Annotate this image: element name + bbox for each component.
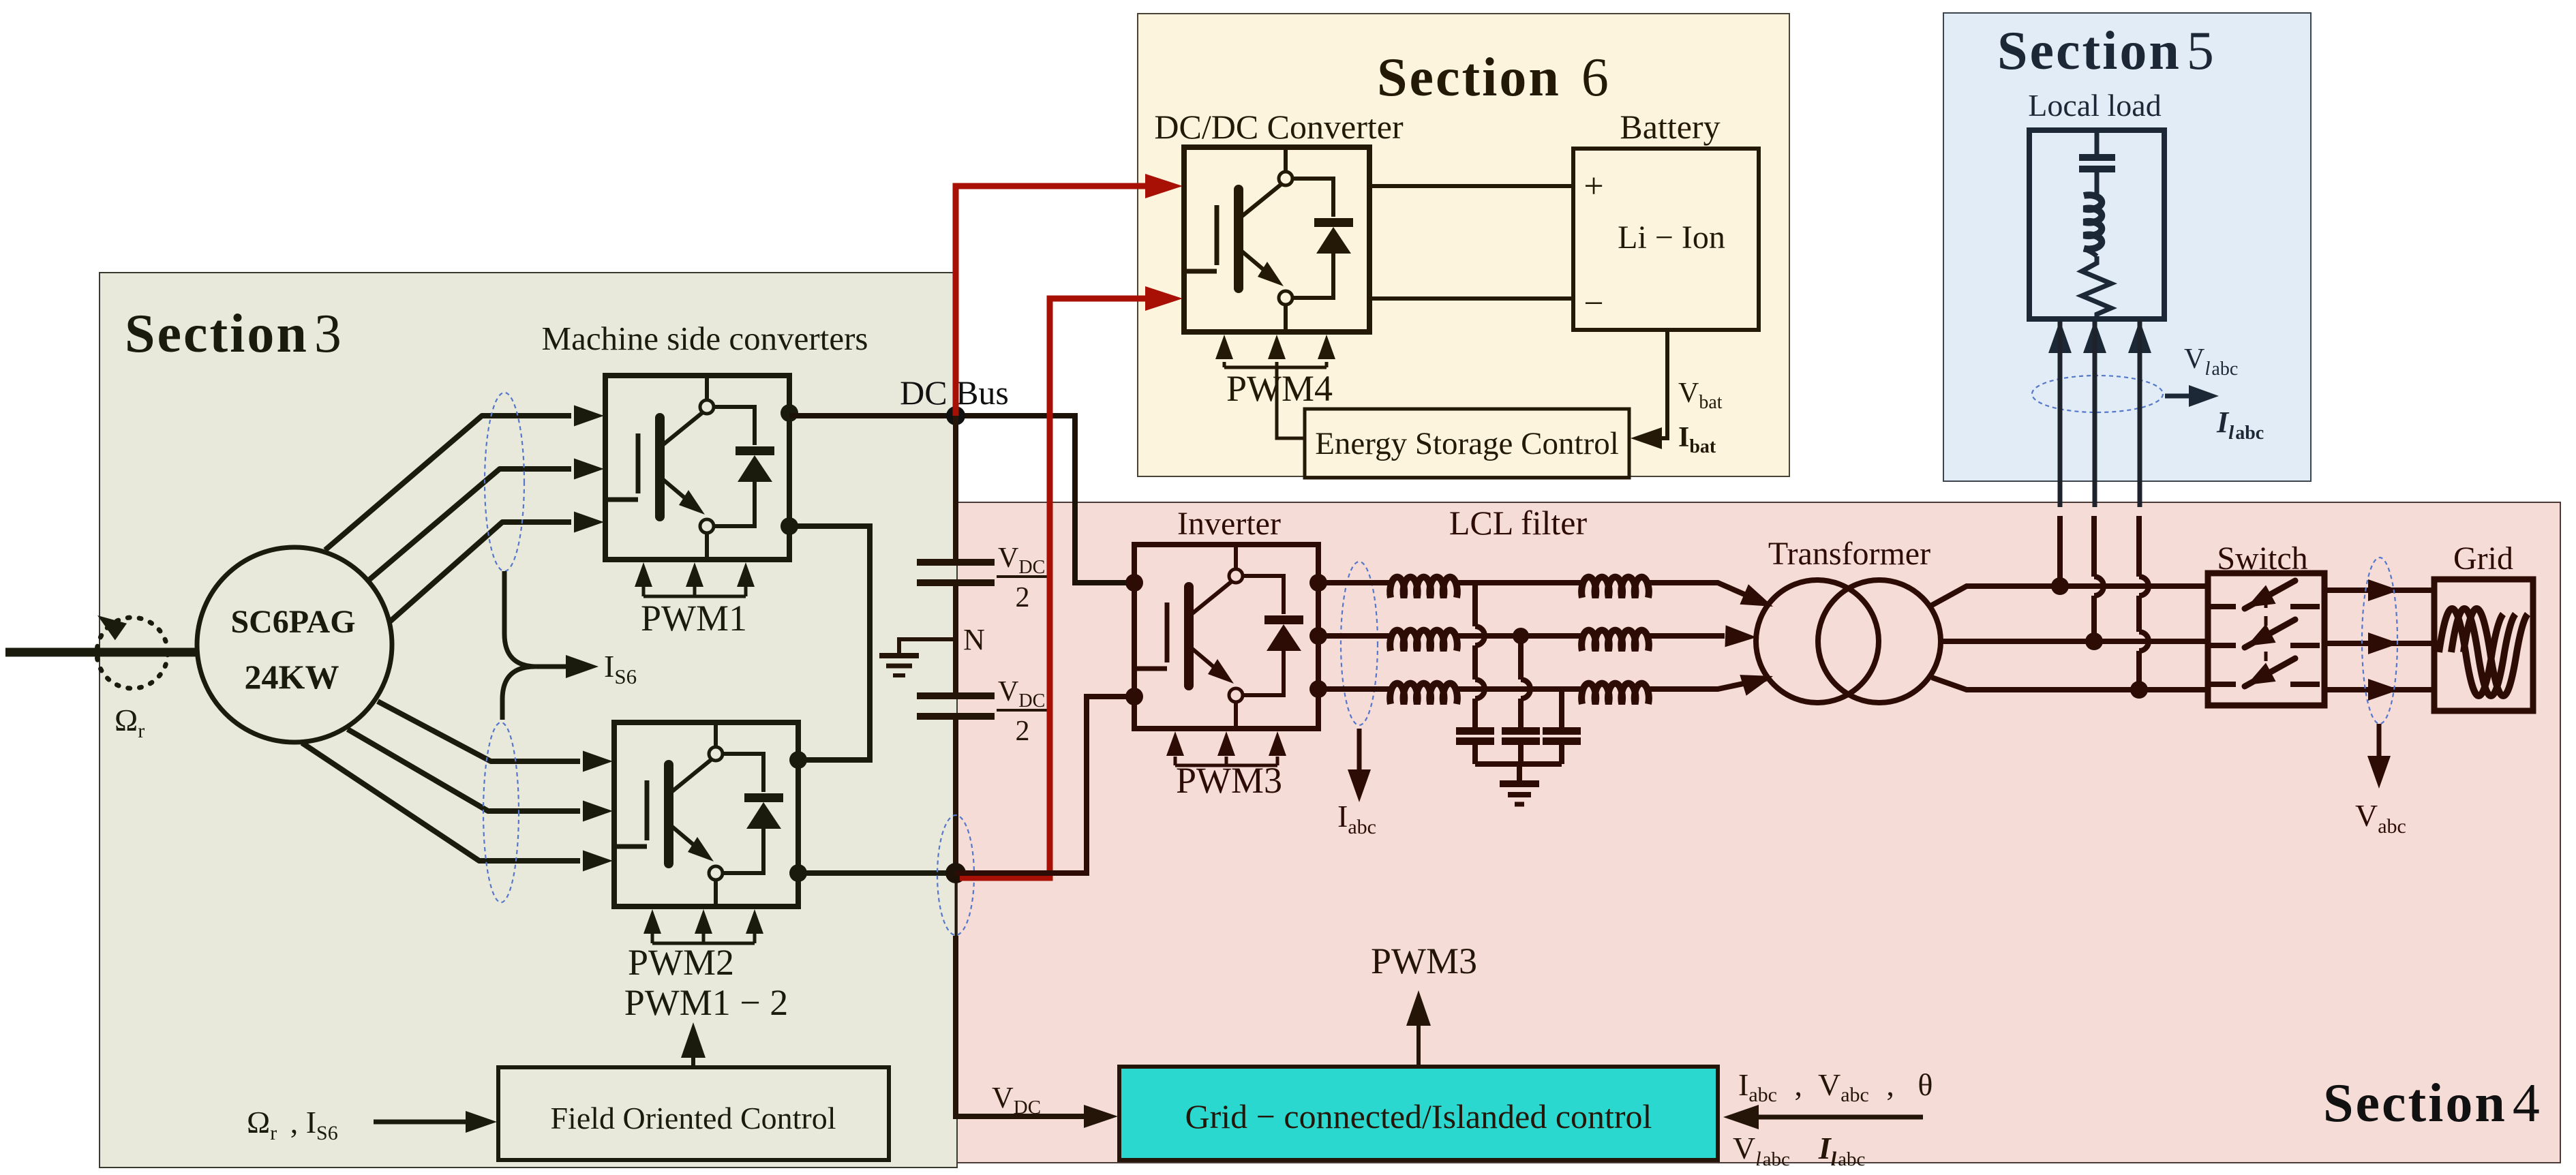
converter U3 IGBT and diode	[1187, 149, 1353, 330]
controller Energy Storage Control box	[1305, 409, 1629, 478]
FOC to PWM arrow	[691, 1056, 695, 1067]
controller Grid-connected/Islanded box	[1119, 1067, 1718, 1160]
wire stator phase b2	[348, 729, 580, 811]
inverter output node b	[1309, 627, 1327, 645]
wire converter U2 to DC node	[798, 870, 956, 876]
svg-text:N: N	[963, 623, 985, 656]
wire stator phase b1	[368, 469, 571, 581]
wire grid phase c	[2324, 687, 2434, 692]
wire phase a transformer-switch	[1932, 586, 2208, 605]
section 5 background (local load)	[1943, 13, 2311, 481]
wire ESC to PWM4	[1277, 367, 1305, 438]
inductor Lb2	[1581, 630, 1649, 651]
wire phase a LCL-transformer	[1648, 583, 1766, 604]
filter tap phase a	[1472, 583, 1478, 727]
measurement ellipse DC node	[937, 815, 974, 935]
svg-text:PWM4: PWM4	[1226, 368, 1333, 409]
generator SC6PAG shaft	[5, 648, 199, 657]
load resistor	[2082, 256, 2111, 319]
inverter U4 IGBT and diode	[1137, 546, 1303, 727]
svg-text:PWM1: PWM1	[641, 598, 747, 639]
filter tap phase c	[1559, 689, 1564, 727]
capacitor Cdc1	[917, 559, 995, 566]
svg-text:24KW: 24KW	[245, 658, 339, 696]
filter capacitor Ca	[1456, 727, 1494, 735]
measurement ellipse stator group 1	[485, 393, 524, 571]
wire phase c mid	[1457, 686, 1582, 692]
wire current sense to I_S6	[504, 571, 566, 667]
wire grid phase a	[2324, 587, 2434, 593]
PWM3 gate arrows	[1175, 764, 1277, 767]
measurement ellipse inverter output	[1341, 562, 1378, 725]
load inductor	[2084, 195, 2102, 249]
svg-text:−: −	[1584, 284, 1603, 323]
inductor La1	[1390, 577, 1457, 598]
converter U1 output node +	[781, 404, 798, 422]
measurement ellipse local load	[2032, 376, 2163, 412]
inductor Lb1	[1390, 630, 1457, 651]
filter tap phase b	[1513, 628, 1529, 644]
measurement ellipse stator group 2	[483, 722, 519, 902]
svg-text:2: 2	[1016, 582, 1030, 613]
node local load tap c	[2130, 681, 2148, 699]
wire phase b mid	[1457, 633, 1582, 639]
wire phase a inverter-LCL	[1318, 580, 1391, 585]
inverter output node a	[1309, 574, 1327, 592]
svg-text:LCL filter: LCL filter	[1449, 504, 1588, 542]
svg-text:Energy Storage Control: Energy Storage Control	[1315, 426, 1619, 461]
wire to filter ground	[1517, 764, 1522, 782]
wire red DC/DC link +	[956, 186, 1145, 416]
wire phase c LCL-transformer	[1648, 679, 1766, 689]
node DC bus junction	[946, 406, 965, 425]
svg-text:Grid − connected/Islanded cont: Grid − connected/Islanded control	[1185, 1097, 1652, 1135]
load box	[2029, 130, 2164, 319]
svg-text:Transformer: Transformer	[1768, 536, 1930, 572]
inverter input node +	[1125, 574, 1143, 592]
svg-text:PWM2: PWM2	[628, 942, 734, 983]
wire battery sense	[1639, 330, 1667, 438]
transformer T1	[1756, 580, 1879, 703]
inductor La2	[1581, 577, 1649, 598]
load capacitor	[2095, 130, 2100, 154]
wire V_DC sense	[955, 873, 957, 936]
battery B1 box	[1573, 149, 1759, 330]
inductor Lc2	[1581, 684, 1649, 704]
controller Field Oriented Control box	[498, 1067, 889, 1160]
wire DC link center	[953, 416, 958, 873]
converter U1 IGBT and diode	[608, 377, 774, 558]
capacitor Cdc2	[917, 692, 995, 699]
wire stator phase a1	[325, 416, 571, 550]
generator M1 SC6PAG 24KW	[197, 547, 392, 742]
measurement ellipse grid	[2362, 558, 2397, 724]
wire phase a mid	[1457, 580, 1582, 585]
wire stator phase c1	[390, 522, 571, 622]
svg-text:Battery: Battery	[1620, 108, 1720, 146]
svg-text:Field Oriented Control: Field Oriented Control	[550, 1101, 836, 1135]
svg-text:PWM1 − 2: PWM1 − 2	[624, 982, 788, 1023]
load feed arrows	[2048, 320, 2072, 353]
filter capacitor bus	[1475, 761, 1562, 767]
wire converter U1 to U2 link	[789, 526, 870, 760]
converter U1 output node -	[781, 517, 798, 535]
node local load tap a	[2051, 577, 2069, 595]
wire DC bus positive	[789, 416, 1134, 583]
wire inverter negative input	[956, 697, 1134, 873]
wire DC/DC to battery -	[1369, 296, 1573, 301]
wire measurement feedback	[1757, 1115, 1923, 1120]
converter U2 box	[614, 722, 798, 906]
wire stator phase c2	[302, 743, 580, 861]
wire phase c inverter-LCL	[1318, 686, 1391, 692]
filter capacitor Cb	[1502, 727, 1540, 735]
svg-text:DC/DC Converter: DC/DC Converter	[1154, 108, 1404, 146]
wire local load phase a	[2057, 516, 2063, 586]
svg-text:+: +	[1584, 167, 1603, 206]
generator rotation arrow	[97, 617, 168, 688]
wire grid phase b	[2324, 641, 2434, 646]
svg-text:Inverter: Inverter	[1177, 506, 1281, 542]
wire DC/DC to battery +	[1369, 184, 1573, 188]
svg-text:Li − Ion: Li − Ion	[1618, 219, 1725, 256]
PWM1 gate arrows	[643, 595, 746, 598]
svg-text:2: 2	[1016, 716, 1030, 747]
grid sine waves	[2439, 609, 2503, 696]
filter capacitor Cc	[1543, 727, 1581, 735]
local load measurement arrow	[2165, 394, 2189, 399]
grid G1 box	[2434, 579, 2533, 711]
wire local load phase b	[2091, 516, 2097, 641]
PWM2 gate arrows	[652, 942, 755, 945]
converter U1 box	[605, 376, 789, 560]
converter U3 DC/DC box	[1184, 147, 1369, 332]
converter U2 output node +	[789, 751, 807, 769]
section 6 background (energy storage)	[1138, 14, 1789, 476]
svg-text:Local load: Local load	[2028, 88, 2161, 123]
wire phase c transformer-switch	[1932, 677, 2208, 690]
switch SW box	[2208, 573, 2324, 705]
node local load tap b	[2085, 632, 2103, 650]
section 3 background (machine side)	[100, 273, 957, 1168]
PWM3 output arrow	[1416, 1022, 1421, 1067]
inverter input node -	[1125, 688, 1143, 705]
svg-text:SC6PAG: SC6PAG	[230, 604, 355, 640]
V_abc measurement arrow	[2377, 724, 2382, 757]
inverter U4 box	[1134, 545, 1318, 729]
converter U2 output node -	[789, 864, 807, 882]
filter ground	[1500, 780, 1539, 787]
wire local load phase c	[2136, 516, 2142, 690]
ground neutral	[899, 639, 956, 654]
inverter output node c	[1309, 680, 1327, 698]
I_abc measurement arrow	[1357, 729, 1362, 770]
wire stator phase a2	[378, 701, 580, 761]
wire phase b LCL-transformer	[1648, 633, 1725, 639]
svg-text:PWM3: PWM3	[1371, 941, 1477, 981]
section 4 background (grid side)	[957, 502, 2560, 1163]
wire red DC/DC link -	[960, 299, 1145, 878]
wire phase b transformer-switch	[1941, 639, 2208, 644]
converter U2 IGBT and diode	[617, 724, 783, 905]
svg-text:Machine side converters: Machine side converters	[542, 320, 868, 357]
svg-text:Grid: Grid	[2453, 540, 2513, 577]
wire FOC input	[374, 1120, 467, 1125]
PWM4 gate arrows	[1224, 366, 1327, 369]
switch blades	[2211, 604, 2236, 609]
inductor Lc1	[1390, 684, 1457, 704]
wire phase b inverter-LCL	[1318, 633, 1391, 639]
node lower DC junction	[945, 863, 966, 883]
